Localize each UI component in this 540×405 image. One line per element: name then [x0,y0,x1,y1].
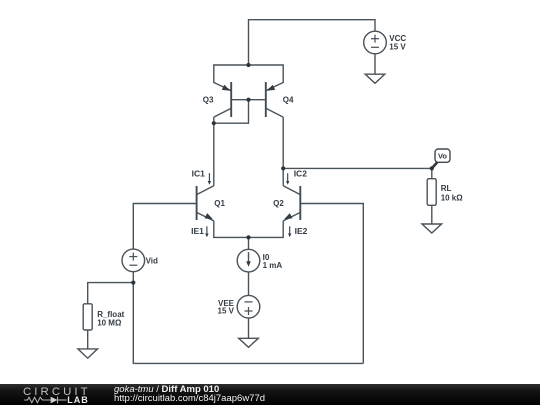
wire Vo node to RL [431,168,433,178]
wire output node to Vo/RL [283,167,432,169]
wire VEE to ground [248,318,250,338]
wire bottom rail [133,283,363,364]
transistor Q1 [197,186,214,221]
wire I0 to VEE [248,272,250,296]
transistor Q3 [214,82,231,117]
wire IC1 (Q3 collector to Q1 collector) [213,117,215,186]
junction Vo/RL [430,166,434,170]
junction emitter rail [246,235,250,239]
wire Q2 base right branch [300,204,363,364]
label VCC value [389,34,406,51]
svg-text:IE1: IE1 [191,226,204,236]
label Q4 [283,96,294,105]
current annotation IC2 [286,173,289,185]
label R_float value [97,310,124,328]
label IC1 [192,169,206,179]
wire VCC to ground [374,54,376,74]
label RL value [441,184,464,202]
svg-text:Q3: Q3 [203,96,214,105]
ground (VEE) [239,338,259,347]
node Vo flag [432,149,450,168]
label Q2 [273,199,284,208]
label Q3 [203,96,214,105]
transistor Q4 [266,82,283,117]
voltage source VEE [237,295,260,318]
svg-text:Vid: Vid [146,257,158,266]
wire Q1 base to Vid [133,204,196,250]
svg-text:IC1: IC1 [192,169,206,179]
svg-text:Q2: Q2 [273,199,284,208]
label VEE value [218,299,235,316]
wire I0 top [248,237,250,249]
svg-text:LAB: LAB [67,395,89,405]
footer title text [114,385,219,394]
svg-text:Vo: Vo [438,151,447,160]
svg-text:RL: RL [441,184,452,193]
svg-text:Q4: Q4 [283,96,294,105]
current annotation IE1 [205,226,208,237]
svg-text:IE2: IE2 [295,226,308,236]
wire R_float to ground [87,330,89,349]
junction Vid bottom [131,281,135,285]
ground (RL) [422,224,442,233]
label Vid [146,257,158,266]
CircuitLab logo [0,384,100,405]
voltage source Vid [122,249,145,272]
ground (R_float) [78,349,98,358]
ground (VCC) [365,74,385,83]
label Q1 [214,199,225,208]
transistor Q2 [283,186,300,221]
resistor R_float [83,304,92,330]
current annotation IE2 [288,226,291,237]
label IE1 [191,226,204,236]
wire top rail to VCC [249,20,376,64]
wire Q3/Q4 emitter rail [214,65,283,83]
wire to R_float [88,283,134,304]
svg-text:Q1: Q1 [214,199,225,208]
junction Q3 collector [212,121,216,125]
svg-text:15 V: 15 V [218,307,235,316]
wire Vid bottom [132,271,134,282]
svg-text:10 kΩ: 10 kΩ [441,193,464,202]
resistor RL [427,179,436,206]
current source I0 [237,249,260,272]
wire Q3-Q4 base rail [231,99,266,101]
svg-text:15 V: 15 V [389,42,406,51]
svg-text:IC2: IC2 [294,169,308,179]
junction base rail [246,98,250,102]
label IE2 [295,226,308,236]
svg-text:10 MΩ: 10 MΩ [97,318,122,327]
voltage source VCC [364,31,387,54]
label IC2 [294,169,308,179]
wire IC2 (Q4 collector to Q2 collector) [282,117,284,186]
current annotation IC1 [208,173,211,185]
svg-text:1 mA: 1 mA [263,261,283,270]
wire diode connection Q3 [214,100,249,124]
junction output node [281,166,285,170]
junction top rail [246,63,250,67]
label I0 value [263,253,283,270]
wire RL to ground [431,205,433,224]
footer url text [114,394,265,403]
wire emitter rail Q1/Q2 [214,221,283,238]
